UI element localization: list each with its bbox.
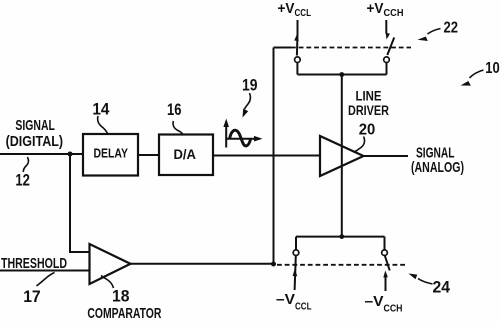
waveform symbol axes horizontal arrow xyxy=(226,136,262,142)
label +VCCH xyxy=(367,0,404,19)
svg-text:DRIVER: DRIVER xyxy=(348,103,389,118)
leader arrow: 22 to dashed linkage xyxy=(418,29,441,42)
wire: upper dashed control linkage xyxy=(291,47,411,49)
svg-text:+V: +V xyxy=(367,0,384,17)
wire: switch 22b to bus xyxy=(386,63,388,75)
leader: 17 to threshold wire xyxy=(37,273,55,287)
comparator 18 xyxy=(90,244,131,284)
wire: tap down to comparator input xyxy=(70,154,90,252)
svg-text:14: 14 xyxy=(92,100,109,119)
switch 22a contact circle xyxy=(295,57,301,63)
label -VCCH xyxy=(365,293,403,315)
delay block 14 xyxy=(83,134,138,176)
wire: switch 24b stub to label xyxy=(385,277,387,292)
wire: threshold input xyxy=(0,270,90,272)
svg-text:D/A: D/A xyxy=(174,146,197,162)
svg-text:10: 10 xyxy=(485,60,500,77)
svg-text:+V: +V xyxy=(278,0,295,17)
wire: switch control vertical line xyxy=(273,48,275,265)
svg-text:LINE: LINE xyxy=(356,88,382,103)
leader arrow: 19 to waveform xyxy=(243,93,251,118)
svg-text:(DIGITAL): (DIGITAL) xyxy=(6,133,64,150)
leader: 14 to delay box xyxy=(98,116,108,134)
wire: digital signal input xyxy=(0,153,83,155)
svg-text:(ANALOG): (ANALOG) xyxy=(411,159,464,176)
leader: 16 to D/A box xyxy=(173,121,182,134)
node: junction on digital input xyxy=(68,152,73,157)
node: junction comparator output to control line xyxy=(271,262,276,267)
switch 22b: +VCCH stub xyxy=(385,20,387,34)
leader: 20 to driver triangle xyxy=(354,137,365,153)
switch 22b contact circle xyxy=(384,57,390,63)
switch 22a: +VCCL stub xyxy=(297,20,299,34)
svg-text:17: 17 xyxy=(23,287,41,306)
wire: switch 22a to bus xyxy=(296,63,298,75)
svg-text:CCL: CCL xyxy=(295,301,312,313)
waveform sine wave xyxy=(230,130,251,146)
svg-text:COMPARATOR: COMPARATOR xyxy=(87,305,161,322)
switch 24b barb xyxy=(383,271,388,278)
svg-text:18: 18 xyxy=(112,287,130,306)
label +VCCL xyxy=(278,0,312,19)
svg-text:CCH: CCH xyxy=(384,303,403,315)
wire: analog signal output xyxy=(364,155,409,157)
label -VCCL xyxy=(276,291,312,313)
svg-text:20: 20 xyxy=(359,122,376,139)
svg-text:CCL: CCL xyxy=(295,7,312,19)
switch 22b barb xyxy=(386,33,390,40)
leader arrow: 24 to dashed linkage xyxy=(409,274,433,285)
switch 24b: stub from bus xyxy=(384,237,386,250)
svg-text:THRESHOLD: THRESHOLD xyxy=(1,255,67,272)
leader: 18 to comparator xyxy=(101,276,114,289)
wire: upper supply bus xyxy=(297,74,386,76)
switch 24a blade with barb (closed) xyxy=(293,256,298,290)
svg-text:DELAY: DELAY xyxy=(94,146,129,161)
wire: lower dashed control linkage xyxy=(277,264,407,266)
svg-text:–V: –V xyxy=(276,291,295,308)
node: upper bus junction xyxy=(339,72,344,77)
svg-text:SIGNAL: SIGNAL xyxy=(15,117,55,134)
wire: control line top corner xyxy=(274,47,292,49)
switch 24b contact circle xyxy=(382,250,388,256)
wire: delay to D/A xyxy=(138,154,159,156)
waveform symbol axes vertical arrow xyxy=(223,119,229,148)
svg-text:–V: –V xyxy=(365,293,384,310)
switch 22b blade (open) xyxy=(387,38,394,56)
switch 22a blade with barb (closed) xyxy=(294,34,299,56)
svg-text:CCH: CCH xyxy=(384,7,404,19)
svg-text:16: 16 xyxy=(167,100,182,119)
switch 24a: stub from bus xyxy=(295,237,297,250)
svg-text:24: 24 xyxy=(433,278,451,297)
svg-text:12: 12 xyxy=(15,171,30,190)
leader arrow: 10 general designation xyxy=(461,70,484,86)
svg-text:19: 19 xyxy=(242,76,258,95)
svg-text:22: 22 xyxy=(444,20,459,37)
D/A converter block 16 xyxy=(159,135,213,176)
node: lower bus junction xyxy=(339,234,344,239)
switch 24b blade (open) xyxy=(385,256,390,271)
wire: lower supply bus xyxy=(296,236,385,238)
wire: D/A to line driver xyxy=(213,155,320,157)
wire: comparator output xyxy=(131,263,274,265)
line driver amplifier 20 xyxy=(320,136,364,176)
leader: 12 to input wire xyxy=(23,157,28,172)
switch 24a contact circle xyxy=(293,250,299,256)
wire: supply feed through line driver xyxy=(341,75,343,237)
